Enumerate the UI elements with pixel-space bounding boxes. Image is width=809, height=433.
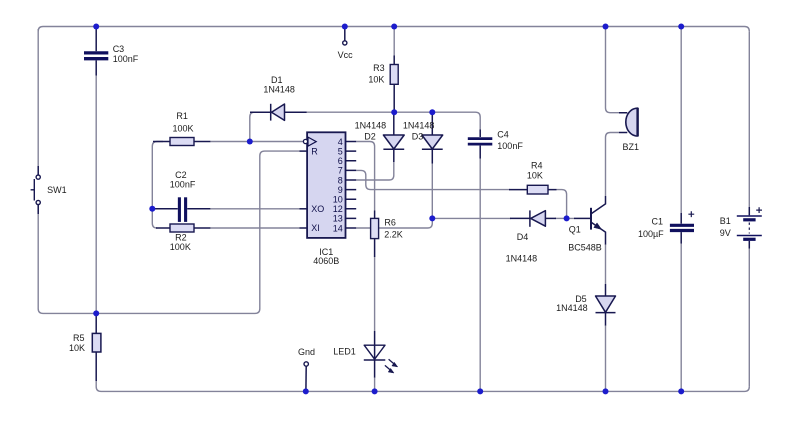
- svg-text:7: 7: [338, 166, 343, 176]
- wire C3 branch vertical: [95, 75, 97, 313]
- wire LED1 cathode to ground rail: [374, 377, 376, 391]
- wire left rail lower to reset net: [38, 151, 299, 313]
- wire top Vcc rail: [38, 27, 749, 32]
- diode D2: [383, 112, 404, 162]
- svg-text:R6: R6: [384, 217, 396, 227]
- label C2 value: [170, 170, 196, 189]
- junction node ground rail / C1: [678, 388, 684, 394]
- junction node top rail / R3: [391, 24, 397, 30]
- ground terminal Gnd: [304, 362, 308, 392]
- IC IC1 4060B body: [300, 132, 357, 238]
- wire R6 bottom to LED1: [374, 257, 376, 332]
- junction node ground rail / C4: [477, 388, 483, 394]
- wire C2 left branch: [152, 208, 160, 210]
- svg-text:100K: 100K: [170, 242, 191, 252]
- label IC1 value: [313, 247, 339, 266]
- svg-text:1N4148: 1N4148: [506, 254, 538, 264]
- diode D3: [422, 112, 443, 163]
- svg-text:1N4148: 1N4148: [403, 121, 435, 131]
- battery B1: [737, 207, 762, 249]
- wire pin8 to D2 cathode: [356, 162, 394, 181]
- label C3 value: [113, 44, 139, 64]
- diode D1: [250, 104, 307, 121]
- wire D4 anode to base junction: [555, 217, 567, 219]
- wire D5 cathode to ground rail: [605, 325, 607, 391]
- svg-text:R5: R5: [73, 333, 85, 343]
- svg-text:5: 5: [338, 146, 343, 156]
- wire right rail: [748, 31, 750, 386]
- label Q1 value: [568, 224, 602, 252]
- svg-text:1N4148: 1N4148: [263, 85, 295, 95]
- svg-text:6: 6: [338, 156, 343, 166]
- svg-text:D2: D2: [364, 131, 376, 141]
- svg-text:D3: D3: [412, 131, 424, 141]
- svg-text:10K: 10K: [69, 343, 85, 353]
- capacitor C4: [468, 130, 493, 159]
- label R2 value: [170, 233, 191, 252]
- wire pin7 down to R4 net: [356, 170, 510, 189]
- junction node top rail / buzzer: [603, 24, 609, 30]
- label D3 value: [403, 121, 435, 142]
- wire D3 cathode down to junction: [431, 163, 433, 218]
- svg-text:8: 8: [338, 175, 343, 185]
- label D5 value: [556, 294, 588, 313]
- svg-text:D4: D4: [517, 232, 529, 242]
- wire Q1 emitter to D5: [605, 244, 607, 284]
- junction node top rail / Vcc: [342, 24, 348, 30]
- wire C4 bottom to ground rail: [479, 158, 481, 391]
- svg-text:14: 14: [333, 223, 343, 233]
- wire clock junction up to D1: [250, 112, 263, 141]
- junction node ground rail / LED1: [372, 388, 378, 394]
- svg-text:BC548B: BC548B: [568, 243, 602, 253]
- junction node D3 D4 pin14: [429, 215, 435, 221]
- svg-text:12: 12: [333, 204, 343, 214]
- svg-text:100µF: 100µF: [638, 229, 664, 239]
- junction node reset net / R5: [93, 310, 99, 316]
- junction node top rail / C1: [678, 24, 684, 30]
- svg-text:100nF: 100nF: [170, 179, 196, 189]
- label D1 value: [263, 75, 295, 95]
- svg-text:XI: XI: [311, 223, 320, 233]
- wire R1 right to clock pin: [210, 141, 303, 143]
- label R4 value: [527, 161, 543, 181]
- svg-text:10K: 10K: [527, 171, 543, 181]
- label R5 value: [69, 333, 85, 353]
- label R1 value: [173, 111, 194, 134]
- buzzer BZ1: [619, 108, 638, 137]
- svg-text:2.2K: 2.2K: [384, 230, 403, 240]
- capacitor C1: [670, 211, 694, 243]
- junction node ground rail / D5: [603, 388, 609, 394]
- junction node R1 D1 clock: [247, 139, 253, 145]
- wire D3/D4 junction to D4 cathode: [432, 217, 511, 219]
- label B1 value: [720, 216, 731, 238]
- svg-text:1N4148: 1N4148: [556, 303, 588, 313]
- clock triangle marker: [308, 137, 316, 146]
- label R6 value: [384, 217, 403, 239]
- junction node D4 R4 Q1 base: [564, 215, 570, 221]
- switch SW1: [31, 166, 41, 214]
- power terminal Vcc: [343, 27, 347, 46]
- pin XO stub: [300, 208, 308, 210]
- label R3 value: [368, 63, 384, 84]
- svg-text:C1: C1: [651, 216, 663, 226]
- diode D4: [510, 210, 556, 226]
- svg-text:R: R: [311, 146, 318, 156]
- svg-text:SW1: SW1: [47, 185, 67, 195]
- pin XI stub: [300, 227, 308, 229]
- pin R stub: [300, 150, 308, 152]
- diode D5: [596, 284, 616, 326]
- label D2 value: [355, 121, 387, 142]
- resistor R5: [92, 313, 101, 381]
- wire C1 top branch: [680, 27, 682, 214]
- right pin stubs 4,5,6,7,8,9,10,12,13,14: [346, 142, 357, 229]
- junction node RC bus / C2: [149, 206, 155, 212]
- wire R4 right corner down to base junction: [557, 190, 575, 219]
- clock inversion bubble: [303, 139, 307, 143]
- transistor Q1: [574, 196, 606, 245]
- wire pin4 to R6 top: [356, 142, 374, 211]
- resistor R1: [153, 138, 210, 146]
- resistor R2: [156, 224, 210, 232]
- wire XO pin to C2: [210, 208, 300, 210]
- resistor R6: [371, 211, 379, 258]
- capacitor C3: [84, 27, 108, 76]
- svg-text:4060B: 4060B: [313, 256, 339, 266]
- wire left rail upper: [37, 29, 39, 175]
- svg-text:Vcc: Vcc: [338, 50, 354, 60]
- wire pin14 to D3 cathode junction: [356, 218, 432, 228]
- junction node ground rail / Gnd: [303, 388, 309, 394]
- svg-text:100K: 100K: [173, 124, 194, 134]
- resistor R3: [390, 56, 398, 113]
- svg-text:1N4148: 1N4148: [355, 121, 387, 131]
- svg-text:BZ1: BZ1: [623, 142, 640, 152]
- svg-text:10K: 10K: [368, 74, 384, 84]
- svg-text:4: 4: [338, 137, 343, 147]
- capacitor C2: [155, 197, 210, 222]
- label C1 value: [638, 216, 664, 239]
- svg-text:R3: R3: [373, 63, 385, 73]
- wire RC bus left of R1 C2 R2: [152, 142, 163, 229]
- svg-text:9: 9: [338, 185, 343, 195]
- svg-text:13: 13: [333, 214, 343, 224]
- junction node R3 D1 D2: [391, 109, 397, 115]
- svg-text:R1: R1: [176, 111, 188, 121]
- svg-text:R4: R4: [531, 161, 543, 171]
- label C4 value: [497, 130, 523, 152]
- resistor R4: [509, 185, 557, 194]
- svg-text:C4: C4: [497, 130, 509, 140]
- svg-text:9V: 9V: [720, 228, 731, 238]
- junction node top rail / C3: [93, 24, 99, 30]
- svg-text:Q1: Q1: [569, 224, 581, 234]
- svg-text:100nF: 100nF: [497, 141, 523, 151]
- svg-text:D1: D1: [271, 75, 283, 85]
- wire bottom ground rail: [96, 380, 749, 391]
- svg-text:10: 10: [333, 195, 343, 205]
- svg-text:B1: B1: [720, 216, 731, 226]
- wire R3 top lead upper: [393, 27, 395, 57]
- wire top rail to buzzer top terminal: [606, 27, 620, 113]
- svg-text:C3: C3: [113, 44, 125, 54]
- LED LED1: [364, 331, 398, 378]
- svg-text:Gnd: Gnd: [298, 347, 315, 357]
- wire buzzer bottom terminal to Q1 collector: [606, 133, 620, 197]
- label D4 value: [506, 232, 538, 263]
- wire D1 right along oscillator top net to C4: [306, 112, 480, 130]
- junction node D3 top net: [429, 109, 435, 115]
- svg-text:100nF: 100nF: [113, 54, 139, 64]
- wire XI pin to R2: [210, 227, 300, 229]
- svg-text:LED1: LED1: [333, 347, 356, 357]
- wire C1 bottom branch: [680, 243, 682, 391]
- svg-text:XO: XO: [311, 204, 324, 214]
